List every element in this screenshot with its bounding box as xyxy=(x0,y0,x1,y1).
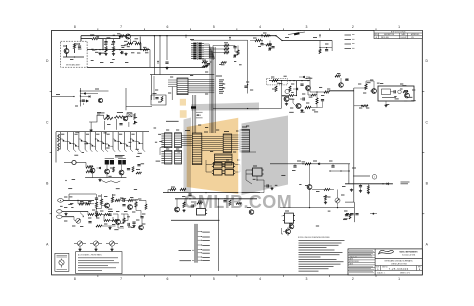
zone tick marks xyxy=(50,28,425,277)
watermark right page xyxy=(242,116,289,196)
resistor R66 xyxy=(263,33,270,37)
component labels center xyxy=(155,72,253,160)
wire W12 xyxy=(91,119,129,130)
resistor R52 xyxy=(113,167,115,172)
wire W31 xyxy=(320,41,332,48)
rail y171 xyxy=(330,164,350,184)
capacitor C13 xyxy=(88,222,91,223)
svg-text:1: 1 xyxy=(398,25,400,29)
matrix row1 key diodes xyxy=(60,132,143,150)
title block text xyxy=(375,259,422,274)
resistor R71 xyxy=(312,189,334,191)
capacitor C3 xyxy=(112,39,115,46)
resistor R2 xyxy=(87,38,103,40)
stub dot right rail xyxy=(354,105,368,107)
small stub parts xyxy=(319,49,328,54)
resistor R27 xyxy=(123,218,125,223)
svg-text:4: 4 xyxy=(259,277,261,281)
matrix bottom rail xyxy=(85,173,126,178)
svg-text:7 - 2 5 - 6 3 6 0 0 3: 7 - 2 5 - 6 3 6 0 0 3 xyxy=(389,269,409,271)
connector L2b xyxy=(175,151,182,165)
connector CN1 dense xyxy=(191,42,204,60)
labels stage xyxy=(97,113,123,125)
capacitor C35 xyxy=(268,41,271,50)
diode D3 xyxy=(299,76,310,81)
transistor Q4b xyxy=(134,121,137,124)
capacitor C22 xyxy=(321,100,324,101)
connector L2 xyxy=(175,133,182,148)
svg-text:8: 8 xyxy=(74,277,76,281)
wire W5 xyxy=(130,39,142,50)
component labels bottom-left xyxy=(64,195,145,227)
wire W20 xyxy=(102,215,113,221)
svg-text:DESCRIPTION: DESCRIPTION xyxy=(384,34,394,36)
wire W36 xyxy=(311,101,323,108)
capacitor C30 xyxy=(127,169,130,170)
ground G11 xyxy=(285,103,304,112)
small parts matrix right xyxy=(136,165,142,174)
flip-flop FF1 xyxy=(251,166,264,176)
watermark spine slit xyxy=(238,118,241,195)
watermark square 2 xyxy=(180,110,187,118)
oscillator box Y1 xyxy=(378,86,414,107)
ferrite bead FB1 xyxy=(288,32,305,35)
transistor Q5 xyxy=(105,203,110,208)
transistor Q20 xyxy=(89,166,95,173)
resistor R23 xyxy=(88,211,94,215)
component value labels speckle xyxy=(60,35,416,230)
diode D1 xyxy=(293,88,298,90)
transistor Q31 xyxy=(289,224,294,229)
resistor R11 xyxy=(104,115,113,120)
connector bus lines xyxy=(194,224,197,263)
wire W18 xyxy=(134,200,137,210)
resistor R61 xyxy=(289,86,291,92)
resistor R35 xyxy=(250,39,261,41)
svg-text:MUSIC INSTRUMENTS: MUSIC INSTRUMENTS xyxy=(399,252,418,254)
bus stubs right xyxy=(196,112,203,118)
fuse box xyxy=(55,253,69,271)
connector L1b xyxy=(161,151,172,165)
capacitor C42 xyxy=(264,184,272,187)
junction dots rails xyxy=(189,192,219,200)
capacitor C31 xyxy=(300,84,303,85)
transistor Q22 xyxy=(119,165,124,175)
wire fan L4-L5 xyxy=(232,135,240,150)
wire W65 xyxy=(260,180,264,193)
resistor R39 xyxy=(316,98,318,104)
resistor R1 xyxy=(73,44,75,49)
transistor Q12 xyxy=(404,91,409,98)
svg-text:SHEET 1 OF 3: SHEET 1 OF 3 xyxy=(400,273,410,275)
junction dots mr xyxy=(329,170,349,171)
wire W22 xyxy=(121,214,125,224)
jack J3 xyxy=(57,215,62,218)
component labels top-left xyxy=(63,34,148,63)
resistor R22 xyxy=(135,202,137,207)
svg-text:7: 7 xyxy=(120,277,122,281)
wire W9 xyxy=(149,50,151,68)
diode D22 xyxy=(80,100,89,103)
resistor R13 xyxy=(134,114,136,120)
watermark left page xyxy=(187,118,239,194)
parts right of rails xyxy=(223,198,253,214)
svg-text:10-24-87: 10-24-87 xyxy=(401,37,407,39)
vertical wire W-lm xyxy=(80,88,81,106)
diode D4 xyxy=(318,163,320,165)
rail y183.8 xyxy=(345,183,393,185)
zone labels xyxy=(46,25,429,281)
resistor R50 xyxy=(86,163,93,169)
wire pickup internals xyxy=(63,45,84,58)
title block logo xyxy=(375,250,422,258)
revision table xyxy=(374,30,422,39)
capacitor C2 xyxy=(104,39,107,46)
transistor Q21 xyxy=(105,165,114,174)
power box corner xyxy=(345,202,354,222)
wire W16 xyxy=(78,200,94,203)
label KB interface xyxy=(166,120,179,122)
ground G-t1 xyxy=(98,52,127,55)
relay K2 xyxy=(118,159,126,165)
capacitor C32 xyxy=(300,97,304,100)
wire W4 xyxy=(103,36,120,39)
resistor network RN1 xyxy=(224,44,229,53)
transistor Q30 xyxy=(307,164,312,190)
svg-text:PROD. REL: PROD. REL xyxy=(381,37,389,39)
resistor R53 xyxy=(132,167,134,173)
junction dots tr xyxy=(269,35,282,41)
small box center xyxy=(197,209,208,216)
junction dots t xyxy=(95,49,141,50)
diode D20 xyxy=(84,92,86,94)
ground G6 xyxy=(182,209,185,212)
node dots pickup xyxy=(74,43,80,44)
matrix bus row1 xyxy=(56,131,149,133)
IC L4 xyxy=(223,134,232,153)
jack J1 xyxy=(58,199,64,203)
wire W21 xyxy=(102,214,118,226)
ground G-st1 xyxy=(90,129,93,132)
transistor Q10 xyxy=(296,104,301,109)
labels tr xyxy=(253,31,329,51)
diode D21 xyxy=(80,95,90,97)
junction dots J-group xyxy=(96,208,97,213)
resistor R64 xyxy=(112,220,118,222)
svg-text:1: 1 xyxy=(398,277,400,281)
svg-text:KEYBOARD ASSY: KEYBOARD ASSY xyxy=(66,64,81,67)
resistor R70 xyxy=(302,163,311,165)
capacitor C5 xyxy=(82,100,85,105)
wire W8 xyxy=(87,66,205,68)
wire W24 xyxy=(235,46,238,53)
transistor Q4 xyxy=(123,116,128,121)
connector pin stubs xyxy=(198,231,210,260)
wire W52 xyxy=(124,211,141,221)
long vertical wire bottom xyxy=(218,199,220,271)
wire W2 xyxy=(87,49,150,51)
svg-text:REV: REV xyxy=(375,34,378,36)
wire W6 xyxy=(139,30,141,38)
wire W60 xyxy=(246,170,252,184)
svg-text:3: 3 xyxy=(306,277,308,281)
wire fan L2-L3 xyxy=(182,136,193,146)
wire W14 xyxy=(63,200,94,201)
resistor R26 xyxy=(96,225,102,227)
ground G2 xyxy=(112,53,115,56)
labels CN1 xyxy=(190,40,236,58)
label spare xyxy=(401,182,410,184)
wire fan L3-L4 xyxy=(202,137,223,151)
dashed shield xyxy=(266,78,287,85)
resistor R36 xyxy=(262,44,272,46)
capacitor C9 xyxy=(95,194,98,199)
watermark grey bar xyxy=(184,118,192,193)
capacitor C11 xyxy=(121,199,128,202)
small box top-center-left xyxy=(151,94,166,106)
wire W30 xyxy=(311,41,332,52)
ground G1 xyxy=(104,53,107,56)
svg-text:6: 6 xyxy=(166,277,168,281)
svg-text:8: 8 xyxy=(74,25,76,29)
svg-text:3: 3 xyxy=(306,25,308,29)
resistor R65 xyxy=(139,200,147,209)
vertical wire W34 xyxy=(295,81,297,95)
svg-text:DWG NO.: DWG NO. xyxy=(382,266,388,268)
junction dot right xyxy=(370,213,377,215)
title block outline xyxy=(348,249,422,275)
wire feed left xyxy=(52,95,75,98)
junction dots right bus xyxy=(261,35,327,48)
wire W50 xyxy=(282,95,297,96)
label keyboard panel header xyxy=(171,219,220,221)
transistor Q9 xyxy=(284,97,289,102)
IC L5 xyxy=(240,130,250,153)
labels CPU xyxy=(185,127,247,132)
vertical wire W-cv xyxy=(191,40,248,93)
wire W62 xyxy=(282,216,294,224)
wire bus top right xyxy=(276,36,311,41)
matrix bottom stubs xyxy=(68,150,146,152)
wire W-cr xyxy=(213,108,282,109)
resistor R17 xyxy=(95,200,97,208)
wire W-lm2 xyxy=(126,88,152,110)
pin labels left xyxy=(179,250,195,261)
connector L1 xyxy=(161,133,172,148)
border frame xyxy=(52,30,423,275)
svg-text:2: 2 xyxy=(374,177,375,179)
IC L6 xyxy=(215,154,233,165)
connector CN2 ladder xyxy=(177,78,188,95)
labels center-low xyxy=(171,187,202,201)
IC L3 dense xyxy=(192,133,202,165)
ground G10 xyxy=(98,179,101,182)
notes block xyxy=(298,237,345,271)
wire W17 xyxy=(97,206,105,209)
wire W15 xyxy=(69,194,96,200)
wire W29 xyxy=(235,165,240,173)
capacitor row C24 xyxy=(346,214,359,215)
junction dots top xyxy=(99,49,120,50)
rail y163.8 xyxy=(270,163,350,165)
resistor R40 xyxy=(324,91,330,93)
transistor Q11 xyxy=(370,89,376,94)
component labels right xyxy=(271,74,415,111)
capacitor C10 xyxy=(95,212,98,213)
jack J2 xyxy=(57,210,62,213)
resistor R15 xyxy=(79,203,84,205)
resistor R28 xyxy=(237,50,239,55)
bus junction blob xyxy=(191,106,196,108)
wire fan CN2 xyxy=(188,80,224,94)
capacitor C8 xyxy=(119,124,122,125)
labels mid-right xyxy=(289,161,356,224)
resistor R25 xyxy=(104,220,110,222)
wire W63 xyxy=(280,207,354,208)
stray parts left xyxy=(65,180,75,182)
transistor Q3 xyxy=(95,89,103,103)
resistor R41 xyxy=(365,84,367,90)
watermark grey band xyxy=(191,103,259,111)
resistor R6 xyxy=(127,42,133,44)
resistor R20 xyxy=(115,199,121,201)
resistor R38 xyxy=(305,106,311,108)
svg-text:R E V I S I O N S: R E V I S I O N S xyxy=(391,32,406,34)
pot P2 xyxy=(74,217,81,224)
capacitor C14 xyxy=(108,214,111,215)
capacitor C34 xyxy=(132,222,135,223)
capacitor C33 xyxy=(140,217,143,218)
capacitor C4 xyxy=(120,51,123,54)
resistor R60 xyxy=(272,86,277,92)
pot arrow P3 xyxy=(80,213,84,218)
svg-text:2: 2 xyxy=(352,25,354,29)
resistor R31 xyxy=(168,188,176,192)
wire W61 xyxy=(256,176,264,181)
relay K1 xyxy=(105,159,114,165)
diode D10 xyxy=(97,167,101,169)
wire W64 xyxy=(310,190,338,208)
resistor R24 xyxy=(96,214,102,216)
rail RL2 xyxy=(175,198,257,200)
transistor Q24 xyxy=(139,225,144,230)
jack circle KS xyxy=(64,160,86,164)
ground G12 xyxy=(95,214,136,229)
watermark square 1 xyxy=(180,99,186,106)
pullup cluster xyxy=(202,60,212,67)
matrix left rail xyxy=(56,132,59,163)
wire W35 xyxy=(310,81,324,98)
resistor R5 xyxy=(119,35,124,37)
svg-text:7: 7 xyxy=(120,25,122,29)
shield circle xyxy=(285,89,289,93)
svg-text:GMLIB.COM: GMLIB.COM xyxy=(184,192,293,212)
small cluster mid xyxy=(335,75,349,87)
wire W41 xyxy=(212,46,214,61)
resistor R33 xyxy=(183,202,185,208)
vertical wire W7 xyxy=(139,37,141,44)
dashed enclosure keyboard pickup xyxy=(61,41,88,67)
resistor R4 xyxy=(112,47,114,53)
wire W42 xyxy=(295,81,297,95)
resistor R3 xyxy=(105,47,107,53)
wire W3 xyxy=(81,39,104,51)
label pickup xyxy=(66,64,81,67)
wire W32 xyxy=(269,80,310,81)
power arrows xyxy=(157,34,321,64)
junction dots amp xyxy=(289,80,308,81)
svg-text:KEYBOARD DIGITAL SCHEMATIC: KEYBOARD DIGITAL SCHEMATIC xyxy=(385,259,414,262)
svg-text:5: 5 xyxy=(213,277,215,281)
potentiometer row VOL TREBLE BASS xyxy=(74,241,118,251)
crystal X2 xyxy=(127,113,132,117)
rail RL1 xyxy=(163,192,260,194)
bus drop wires xyxy=(154,35,169,75)
transistor Q1 xyxy=(64,49,69,54)
capacitor C12 xyxy=(122,205,125,206)
label lm xyxy=(75,105,78,107)
transistor Q8 xyxy=(175,199,180,212)
vertical bus bundle B xyxy=(192,95,196,133)
vertical wire W33 xyxy=(281,81,283,108)
wire W40 xyxy=(204,60,206,67)
boxed note xyxy=(76,252,122,274)
resistor R16 xyxy=(86,203,91,205)
capacitor C19 xyxy=(190,204,193,207)
logic box top edge xyxy=(150,75,214,100)
capacitor C1 xyxy=(78,46,81,47)
wire W53 xyxy=(118,218,142,228)
wire W-c2 xyxy=(160,148,256,155)
transistor Q6 xyxy=(128,205,133,210)
ground G13 xyxy=(270,187,273,190)
resistor R72 xyxy=(324,195,331,204)
parts PR1 xyxy=(344,211,351,219)
wire W38 xyxy=(354,81,374,89)
resistor R51 xyxy=(86,170,93,172)
matrix row1 labels xyxy=(61,133,135,135)
resistor R21 xyxy=(128,199,134,201)
wire W37 xyxy=(289,99,296,106)
wire W23 xyxy=(213,46,235,53)
resistor R62 xyxy=(288,95,294,97)
squiggle below rail xyxy=(102,181,121,183)
diode D2 xyxy=(382,183,388,186)
ground G7 xyxy=(359,190,370,194)
wire W39 xyxy=(282,228,288,236)
label key switch xyxy=(115,156,125,157)
svg-text:6: 6 xyxy=(166,25,168,29)
wire W51 xyxy=(308,90,317,96)
ground G8 xyxy=(350,189,353,192)
rail right y90.8 xyxy=(329,90,354,92)
wire fan CN1 xyxy=(204,44,215,58)
resistor R42 xyxy=(367,184,369,191)
capacitor C21 xyxy=(271,47,274,48)
svg-text:NOTES: UNLESS OTHERWISE SPECI: NOTES: UNLESS OTHERWISE SPECIFIED xyxy=(298,237,331,239)
transistor Q23 xyxy=(306,86,311,91)
resistor R12 xyxy=(114,116,123,118)
capacitor C40 xyxy=(292,164,297,171)
wire stubs CN2 left xyxy=(168,80,177,100)
capacitor C20 xyxy=(260,41,263,45)
resistor R63 xyxy=(104,214,110,216)
component RP1 xyxy=(221,62,227,65)
resistor R19 xyxy=(111,194,113,203)
svg-text:5: 5 xyxy=(213,25,215,29)
capacitor C41 xyxy=(331,164,334,167)
transistor Q7 xyxy=(116,220,121,225)
